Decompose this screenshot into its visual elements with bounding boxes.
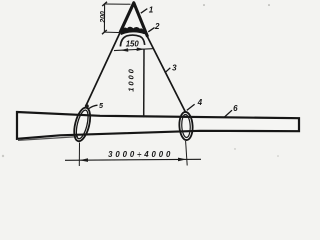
dimension 1000 line (vertical) xyxy=(143,49,145,118)
pole 6 (tapered log) xyxy=(17,112,299,139)
sling rope right (item 3 right leg) xyxy=(147,37,185,112)
dimension arrow right xyxy=(178,158,187,162)
leader for label 4 xyxy=(187,104,195,110)
dimension 200 tick bottom xyxy=(102,30,107,34)
leader for label 3 xyxy=(165,68,171,73)
dimension 3000÷4000 extension line right xyxy=(186,141,188,166)
hook scallops 2 (wavy grip at triangle base) xyxy=(121,28,144,34)
scan speck bottom right xyxy=(277,155,279,157)
pole bottom-left double contour xyxy=(18,137,78,141)
scan speck bottom left xyxy=(2,155,4,157)
dimension 3000÷4000 line xyxy=(65,159,201,160)
dimension 150 arrow left xyxy=(120,48,128,52)
leader for label 2 xyxy=(148,28,154,32)
svg-text:1000: 1000 xyxy=(127,67,136,92)
dimension 150 line xyxy=(114,49,153,51)
dimension 200 tick top xyxy=(102,2,107,6)
scan speck bottom middle xyxy=(234,148,235,149)
svg-text:3: 3 xyxy=(172,63,177,72)
leader for label 1 xyxy=(141,9,148,14)
dimension 3000÷4000 extension line left xyxy=(78,143,80,167)
leader for label 6 xyxy=(225,110,233,117)
svg-text:3000÷4000: 3000÷4000 xyxy=(108,150,173,159)
svg-text:5: 5 xyxy=(99,101,104,110)
knot at top of loop 5 xyxy=(85,104,89,108)
dimension 200 extension top xyxy=(105,3,131,5)
leader for label 5 xyxy=(89,105,98,108)
svg-text:4: 4 xyxy=(197,98,203,107)
dimension 150 arrow right xyxy=(137,48,145,52)
svg-text:150: 150 xyxy=(126,40,140,49)
dimension 200 vertical line xyxy=(103,4,105,32)
scan speck top middle xyxy=(203,4,205,6)
sling rope left (item 3 left leg) xyxy=(86,32,121,106)
triangular link 1 xyxy=(120,3,147,36)
svg-text:1: 1 xyxy=(149,5,154,14)
svg-text:2: 2 xyxy=(154,22,160,31)
dimension 200 extension bottom xyxy=(104,31,121,34)
loop 5 (left rope loop around pole) xyxy=(71,106,93,143)
hook dome below triangle xyxy=(120,35,144,46)
svg-text:6: 6 xyxy=(233,104,238,113)
dimension arrow left xyxy=(79,158,88,162)
loop 4 (right rope loop around pole) xyxy=(179,112,194,141)
scan speck top right xyxy=(268,4,270,6)
svg-text:200: 200 xyxy=(98,11,107,24)
